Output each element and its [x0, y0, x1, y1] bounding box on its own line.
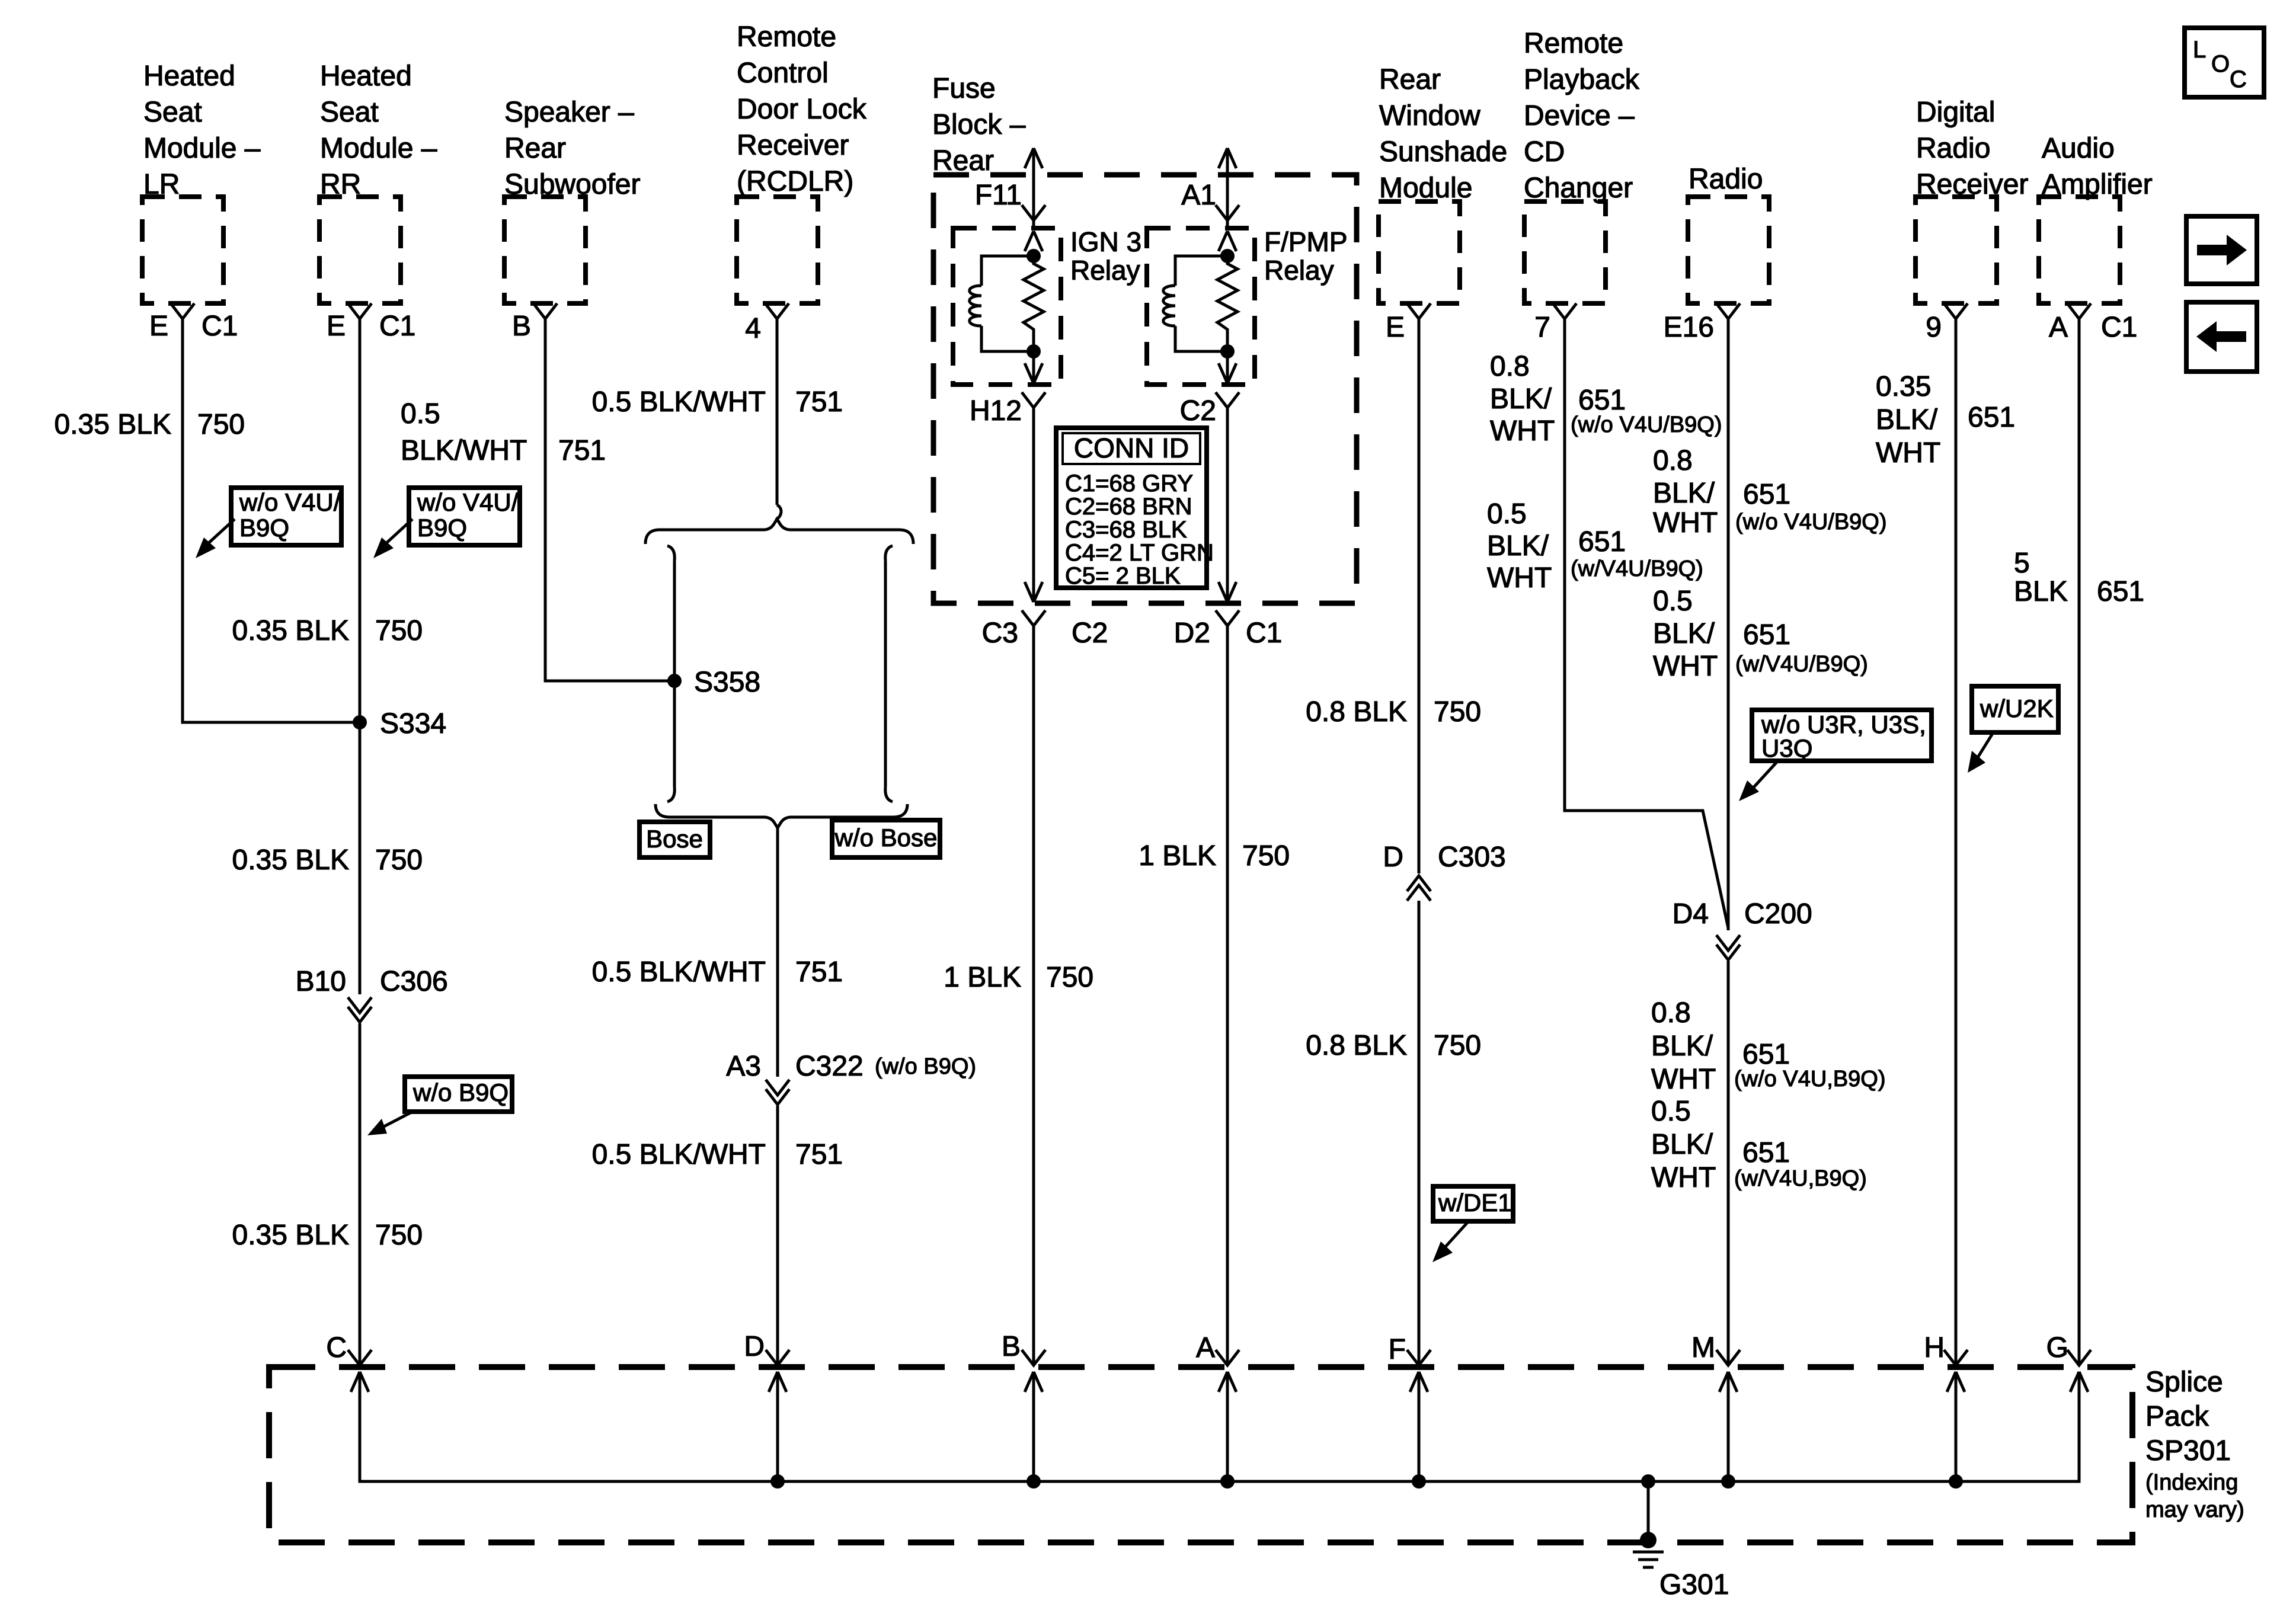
svg-text:C3: C3 — [982, 617, 1018, 649]
svg-text:w/o V4U/: w/o V4U/ — [239, 488, 341, 516]
svg-text:750: 750 — [1434, 696, 1481, 728]
wire RR ground lower — [359, 1023, 362, 1364]
relay F/PMP coil — [1163, 256, 1227, 351]
svg-text:may vary): may vary) — [2145, 1497, 2244, 1522]
svg-text:B: B — [512, 311, 531, 342]
loc box LOC — [2185, 28, 2264, 97]
svg-text:Digital: Digital — [1916, 97, 1995, 128]
connector fork D at splice edge — [766, 1350, 789, 1365]
svg-text:BLK/: BLK/ — [1487, 530, 1549, 562]
module Heated Seat Module LR box — [142, 197, 223, 303]
callout w/o V4U/B9Q (RR wire) — [409, 488, 520, 545]
svg-text:Block –: Block – — [932, 109, 1026, 140]
svg-text:Speaker –: Speaker – — [504, 97, 634, 128]
module RCDLR label — [737, 21, 867, 197]
svg-text:7: 7 — [1534, 312, 1550, 343]
svg-text:Radio: Radio — [1916, 133, 1990, 164]
module Rear Window Sunshade Module box — [1379, 201, 1460, 303]
svg-text:(w/o V4U/B9Q): (w/o V4U/B9Q) — [1735, 510, 1887, 534]
connector fork C3 below fuse block — [1022, 610, 1045, 626]
connector fork pin LR — [171, 303, 194, 319]
node ground G301 dot — [1640, 1532, 1657, 1548]
label 0.5 BLK/ WHT (radio mid) — [1653, 585, 1718, 682]
svg-text:B9Q: B9Q — [239, 514, 289, 542]
wire C2 to fuse block bottom — [1219, 408, 1236, 602]
svg-text:0.5 BLK/WHT: 0.5 BLK/WHT — [592, 386, 766, 418]
module Rear Window Sunshade Module label — [1379, 64, 1507, 204]
svg-text:Rear: Rear — [504, 133, 566, 164]
svg-text:BLK/: BLK/ — [1653, 618, 1715, 649]
svg-text:Window: Window — [1379, 100, 1480, 132]
svg-text:Receiver: Receiver — [737, 130, 849, 161]
svg-text:Heated: Heated — [143, 60, 235, 92]
module RCDLR box — [737, 197, 818, 303]
svg-text:WHT: WHT — [1653, 651, 1718, 682]
svg-text:A3: A3 — [726, 1051, 761, 1082]
svg-text:1 BLK: 1 BLK — [944, 962, 1021, 993]
wire C3 fuse to splice — [1032, 625, 1035, 1364]
callout w/o U3R U3S U3Q — [1752, 710, 1932, 762]
svg-text:F11: F11 — [975, 180, 1022, 211]
svg-text:BLK: BLK — [2014, 576, 2068, 607]
svg-text:Door Lock: Door Lock — [737, 94, 867, 125]
svg-text:C3=68 BLK: C3=68 BLK — [1065, 517, 1187, 543]
svg-text:0.35 BLK: 0.35 BLK — [232, 615, 349, 646]
svg-text:C4=2 LT GRN: C4=2 LT GRN — [1065, 540, 1214, 566]
option box Bose — [639, 822, 710, 857]
svg-text:O: O — [2211, 51, 2230, 77]
svg-text:Audio: Audio — [2042, 133, 2115, 164]
module Remote Playback Device CD Changer label — [1524, 28, 1640, 204]
svg-text:C2=68 BRN: C2=68 BRN — [1065, 494, 1192, 520]
svg-text:C5= 2 BLK: C5= 2 BLK — [1065, 563, 1181, 589]
module Digital Radio Receiver box — [1916, 197, 1997, 303]
svg-text:Module –: Module – — [320, 133, 437, 164]
svg-text:E: E — [327, 311, 346, 342]
svg-text:Splice: Splice — [2145, 1366, 2223, 1398]
svg-text:w/o V4U/: w/o V4U/ — [417, 488, 519, 516]
wire F/PMP relay output with arrow — [1216, 351, 1239, 408]
svg-text:w/o B9Q: w/o B9Q — [412, 1078, 509, 1106]
node splice F — [1412, 1474, 1426, 1489]
svg-text:U3Q: U3Q — [1761, 734, 1812, 762]
wire arrow into F/PMP relay — [1219, 231, 1236, 251]
svg-text:(Indexing: (Indexing — [2145, 1470, 2238, 1495]
svg-text:S334: S334 — [380, 708, 446, 740]
svg-text:0.8 BLK: 0.8 BLK — [1306, 696, 1407, 728]
svg-text:BLK/: BLK/ — [1653, 478, 1715, 509]
connector fork pin CD changer — [1553, 303, 1576, 319]
svg-text:A1: A1 — [1181, 180, 1216, 211]
relay F/PMP label — [1264, 226, 1348, 286]
svg-text:WHT: WHT — [1651, 1162, 1716, 1193]
wire ground stub G301 — [1647, 1481, 1650, 1539]
svg-text:Playback: Playback — [1524, 64, 1640, 95]
svg-text:H: H — [1924, 1332, 1945, 1363]
svg-text:E: E — [149, 311, 168, 342]
svg-text:750: 750 — [1046, 962, 1093, 993]
connector B10 C306 inline — [348, 997, 372, 1022]
connector fork pin RCDLR — [765, 303, 789, 319]
splice bus line — [360, 1372, 2079, 1481]
module Audio Amplifier label — [2042, 133, 2153, 200]
svg-text:751: 751 — [558, 435, 606, 466]
svg-text:S358: S358 — [694, 667, 760, 698]
callout arrow to RR wire lower — [367, 1110, 415, 1135]
svg-text:5: 5 — [2014, 548, 2030, 579]
svg-text:C1: C1 — [1246, 617, 1282, 649]
nav arrow right box — [2186, 216, 2257, 284]
wire CD changer 651 — [1565, 319, 1728, 928]
option box w/o Bose — [832, 820, 940, 857]
wire RCDLR upper 0.5 BLK/WHT 751 — [776, 319, 781, 520]
wire LR ground 0.35 BLK 750 — [183, 319, 360, 722]
svg-text:Module –: Module – — [143, 133, 261, 164]
svg-text:C1: C1 — [379, 311, 415, 342]
svg-text:750: 750 — [375, 1219, 423, 1251]
brace merge bottom — [655, 804, 907, 828]
wire H12 to fuse block bottom — [1025, 408, 1043, 602]
svg-text:BLK/: BLK/ — [1651, 1030, 1713, 1062]
svg-text:651: 651 — [1578, 385, 1626, 416]
svg-text:C1: C1 — [202, 311, 238, 342]
svg-text:751: 751 — [795, 1139, 843, 1170]
svg-text:750: 750 — [375, 844, 423, 876]
wire RR ground upper — [359, 319, 362, 994]
svg-text:F/PMP: F/PMP — [1264, 226, 1348, 257]
node IGN3 bottom junction — [1027, 344, 1041, 359]
svg-text:L: L — [2193, 37, 2206, 63]
ground symbol G301 — [1633, 1552, 1664, 1567]
svg-text:Fuse: Fuse — [932, 73, 996, 104]
svg-text:0.8 BLK: 0.8 BLK — [1306, 1030, 1407, 1061]
module Heated Seat Module LR label — [143, 60, 261, 200]
connector fork pin sunshade — [1407, 303, 1431, 319]
svg-text:WHT: WHT — [1876, 437, 1940, 469]
node splice M — [1721, 1474, 1735, 1489]
svg-text:750: 750 — [375, 615, 423, 646]
callout w/o V4U/B9Q (LR wire) — [231, 488, 341, 545]
svg-text:0.5: 0.5 — [1653, 585, 1693, 617]
label 0.8 BLK/ WHT (CD upper) — [1490, 351, 1555, 447]
nav arrow left box — [2186, 302, 2257, 372]
svg-text:B: B — [1002, 1331, 1021, 1362]
connector D C303 inline — [1407, 876, 1431, 901]
svg-text:Rear: Rear — [1379, 64, 1441, 95]
svg-text:M: M — [1691, 1332, 1715, 1363]
wire radio upper — [1727, 319, 1730, 930]
module Radio box — [1688, 197, 1769, 303]
connector fork F at splice edge — [1407, 1350, 1431, 1365]
svg-text:D: D — [744, 1331, 765, 1362]
module CD Changer box — [1524, 201, 1606, 303]
splice entry arrow G — [2070, 1372, 2088, 1392]
svg-text:A: A — [2049, 312, 2068, 343]
relay IGN 3 box — [953, 228, 1061, 385]
node F/PMP bottom junction — [1220, 344, 1235, 359]
wire sunshade upper — [1418, 319, 1421, 873]
svg-text:Seat: Seat — [143, 97, 202, 128]
svg-text:0.8: 0.8 — [1490, 351, 1530, 382]
svg-text:(w/V4U,B9Q): (w/V4U,B9Q) — [1734, 1166, 1867, 1191]
splice entry arrow and stub F — [1410, 1372, 1428, 1481]
node S358 — [667, 674, 682, 688]
svg-text:D: D — [1383, 841, 1403, 873]
svg-text:0.8: 0.8 — [1651, 997, 1691, 1029]
svg-text:651: 651 — [2097, 576, 2144, 607]
svg-text:0.35 BLK: 0.35 BLK — [55, 409, 171, 440]
module Digital Radio Receiver label — [1916, 97, 2028, 200]
connector fork pin RR — [348, 303, 372, 319]
pin A1 arrow into fuse block — [1216, 148, 1239, 228]
splice entry arrow C — [351, 1372, 369, 1392]
splice pack SP301 box — [269, 1367, 2132, 1542]
svg-text:750: 750 — [1242, 840, 1290, 872]
svg-text:w/U2K: w/U2K — [1980, 694, 2054, 722]
node S334 — [353, 715, 367, 729]
svg-text:651: 651 — [1743, 619, 1790, 651]
connector fork G at splice edge — [2067, 1350, 2091, 1365]
svg-text:651: 651 — [1742, 1137, 1790, 1169]
svg-text:WHT: WHT — [1490, 415, 1555, 447]
node IGN3 top junction — [1027, 249, 1041, 263]
svg-text:w/DE1: w/DE1 — [1438, 1189, 1512, 1217]
label 5 BLK (amplifier) — [2014, 548, 2068, 607]
svg-text:(w/o B9Q): (w/o B9Q) — [875, 1054, 976, 1079]
svg-text:WHT: WHT — [1487, 562, 1552, 594]
node splice B — [1027, 1474, 1041, 1489]
svg-text:G301: G301 — [1659, 1569, 1729, 1601]
relay F/PMP box — [1147, 228, 1255, 385]
svg-text:9: 9 — [1926, 312, 1942, 343]
callout arrow to DRR wire — [1968, 734, 1993, 773]
svg-text:4: 4 — [745, 313, 761, 344]
svg-text:0.35 BLK: 0.35 BLK — [232, 1219, 349, 1251]
splice pack label — [2145, 1366, 2244, 1522]
wire arrow into IGN3 relay — [1025, 231, 1043, 251]
module Audio Amplifier box — [2039, 197, 2120, 303]
svg-text:WHT: WHT — [1653, 507, 1718, 539]
svg-text:(w/o V4U,B9Q): (w/o V4U,B9Q) — [1734, 1067, 1886, 1092]
wire split branch right (w/o Bose) — [885, 546, 893, 802]
svg-text:(w/V4U/B9Q): (w/V4U/B9Q) — [1735, 652, 1868, 677]
svg-text:750: 750 — [197, 409, 245, 440]
splice entry arrow and stub D — [769, 1372, 786, 1481]
svg-text:BLK/: BLK/ — [1651, 1129, 1713, 1160]
wire RCDLR merged mid — [776, 828, 779, 1077]
module Heated Seat Module RR label — [320, 60, 437, 200]
connector fork B at splice edge — [1022, 1350, 1045, 1365]
svg-text:F: F — [1389, 1334, 1406, 1365]
splice entry arrow and stub H — [1947, 1372, 1965, 1481]
wire radio lower — [1727, 961, 1730, 1364]
svg-text:(RCDLR): (RCDLR) — [737, 166, 853, 197]
svg-text:651: 651 — [1742, 1039, 1790, 1070]
svg-text:0.5: 0.5 — [1487, 498, 1527, 530]
svg-text:0.8: 0.8 — [1653, 445, 1693, 476]
svg-text:Control: Control — [737, 57, 829, 89]
svg-text:C1: C1 — [2101, 312, 2137, 343]
wire C2-D2 fuse to splice — [1226, 625, 1229, 1364]
callout arrow to radio wire — [1739, 762, 1777, 801]
relay IGN 3 coil — [970, 256, 1034, 351]
callout w/o B9Q (RR wire) — [405, 1077, 512, 1112]
callout w/DE1 — [1433, 1186, 1513, 1221]
svg-text:D4: D4 — [1673, 898, 1709, 930]
wire IGN3 relay output with arrow — [1022, 351, 1045, 408]
svg-text:H12: H12 — [970, 395, 1022, 427]
wire amplifier 651 — [2078, 319, 2081, 1364]
callout arrow to RR wire — [373, 519, 412, 558]
connector fork pin DRR — [1944, 303, 1968, 319]
CONN ID table — [1056, 428, 1214, 589]
callout arrow to LR wire — [196, 519, 235, 558]
svg-text:C2: C2 — [1072, 617, 1108, 649]
node splice D — [770, 1474, 785, 1489]
svg-text:(w/o V4U/B9Q): (w/o V4U/B9Q) — [1571, 412, 1722, 437]
svg-text:Seat: Seat — [320, 97, 379, 128]
svg-text:Radio: Radio — [1689, 164, 1763, 195]
relay IGN 3 resistor — [1024, 256, 1044, 351]
svg-text:Remote: Remote — [1524, 28, 1623, 59]
module Fuse Block Rear label — [932, 73, 1026, 177]
svg-text:Sunshade: Sunshade — [1379, 136, 1507, 168]
svg-text:G: G — [2046, 1332, 2068, 1363]
svg-text:B9Q: B9Q — [417, 514, 467, 542]
wire speaker subwoofer ground — [545, 319, 674, 681]
svg-text:E: E — [1386, 312, 1405, 343]
svg-text:0.35: 0.35 — [1876, 371, 1931, 402]
svg-text:WHT: WHT — [1651, 1064, 1716, 1095]
svg-text:C303: C303 — [1438, 841, 1506, 873]
svg-text:1 BLK: 1 BLK — [1139, 840, 1216, 872]
svg-text:651: 651 — [1578, 526, 1626, 558]
svg-text:SP301: SP301 — [2145, 1435, 2231, 1467]
svg-text:Bose: Bose — [646, 825, 703, 853]
label 0.8 BLK/ WHT (radio upper) — [1653, 445, 1718, 539]
callout arrow to sunshade wire — [1432, 1222, 1468, 1262]
label 0.35 BLK/ WHT (DRR) — [1876, 371, 1940, 469]
svg-text:CD: CD — [1524, 136, 1565, 168]
connector fork H at splice edge — [1944, 1350, 1968, 1365]
wire sunshade lower — [1418, 901, 1421, 1364]
svg-text:0.5: 0.5 — [401, 398, 440, 430]
svg-text:651: 651 — [1968, 402, 2015, 433]
svg-text:0.35 BLK: 0.35 BLK — [232, 844, 349, 876]
svg-text:651: 651 — [1743, 479, 1790, 510]
module Fuse Block Rear box — [933, 175, 1357, 603]
svg-text:A: A — [1196, 1332, 1215, 1363]
node splice A — [1220, 1474, 1235, 1489]
node splice H — [1949, 1474, 1963, 1489]
connector fork M at splice edge — [1716, 1350, 1740, 1365]
svg-text:BLK/: BLK/ — [1490, 383, 1552, 415]
pin F11 arrow into fuse block — [1022, 148, 1045, 228]
connector fork pin speaker — [533, 303, 557, 319]
svg-text:(w/V4U/B9Q): (w/V4U/B9Q) — [1571, 556, 1703, 581]
brace split top — [645, 519, 913, 544]
callout w/U2K — [1972, 686, 2058, 732]
svg-text:C306: C306 — [380, 966, 448, 997]
svg-text:C2: C2 — [1180, 395, 1216, 427]
svg-text:BLK/WHT: BLK/WHT — [401, 435, 527, 466]
svg-text:0.5: 0.5 — [1651, 1096, 1691, 1127]
module Heated Seat Module RR box — [319, 197, 401, 303]
svg-text:C: C — [326, 1332, 347, 1363]
connector A3 C322 inline — [766, 1080, 789, 1105]
svg-text:Relay: Relay — [1264, 255, 1334, 286]
wire split branch left (Bose) — [667, 546, 674, 802]
module Speaker Rear Subwoofer box — [504, 197, 586, 303]
wire DRR 651 — [1955, 319, 1958, 1364]
svg-text:CONN ID: CONN ID — [1074, 433, 1189, 463]
connector D4 C200 inline — [1716, 935, 1740, 960]
node ground tap on bus — [1641, 1474, 1655, 1489]
splice entry arrow and stub A — [1219, 1372, 1236, 1481]
svg-text:Rear: Rear — [932, 145, 994, 177]
svg-text:0.5 BLK/WHT: 0.5 BLK/WHT — [592, 1139, 766, 1170]
module Speaker Rear Subwoofer label — [504, 97, 640, 200]
svg-text:C200: C200 — [1744, 898, 1812, 930]
connector fork pin amplifier — [2067, 303, 2091, 319]
splice entry arrow and stub B — [1025, 1372, 1043, 1481]
connector fork A at splice edge — [1216, 1350, 1239, 1365]
wire RCDLR merged lower — [776, 1106, 779, 1364]
connector fork D2 below fuse block — [1216, 610, 1239, 626]
svg-text:C: C — [2230, 66, 2247, 92]
svg-text:Pack: Pack — [2145, 1401, 2209, 1432]
svg-text:IGN 3: IGN 3 — [1070, 226, 1141, 257]
svg-text:Heated: Heated — [320, 60, 412, 92]
svg-text:Device –: Device – — [1524, 100, 1635, 132]
svg-text:BLK/: BLK/ — [1876, 404, 1938, 436]
label 0.5 BLK/ WHT (CD lower) — [1487, 498, 1552, 594]
connector fork C at splice edge — [348, 1350, 372, 1365]
relay F/PMP resistor — [1217, 256, 1237, 351]
svg-text:Remote: Remote — [737, 21, 836, 53]
svg-text:B10: B10 — [296, 966, 346, 997]
svg-text:Relay: Relay — [1070, 255, 1140, 286]
svg-text:D2: D2 — [1174, 617, 1210, 649]
label 0.5 BLK/ WHT (radio lower2) — [1651, 1096, 1716, 1193]
svg-text:0.5 BLK/WHT: 0.5 BLK/WHT — [592, 956, 766, 988]
svg-text:C322: C322 — [795, 1051, 864, 1082]
svg-text:751: 751 — [795, 386, 843, 418]
svg-text:751: 751 — [795, 956, 843, 988]
splice entry arrow and stub M — [1719, 1372, 1737, 1481]
label 0.8 BLK/ WHT (radio lower1) — [1651, 997, 1716, 1095]
relay IGN 3 label — [1070, 226, 1141, 286]
svg-text:E16: E16 — [1664, 312, 1714, 343]
node F/PMP top junction — [1220, 249, 1235, 263]
svg-text:w/o Bose: w/o Bose — [834, 824, 938, 852]
svg-text:750: 750 — [1434, 1030, 1481, 1061]
connector fork pin radio — [1716, 303, 1740, 319]
svg-text:C1=68 GRY: C1=68 GRY — [1065, 470, 1193, 497]
